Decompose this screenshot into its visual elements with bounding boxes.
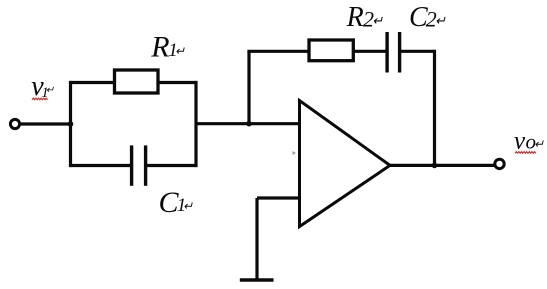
op-amp U1 [300,101,391,227]
svg-text:↵: ↵ [372,13,383,28]
wire C1 right [147,164,196,167]
wire feedback left vertical [247,51,250,123]
svg-text:v: v [514,128,526,155]
ground [240,278,274,281]
wire R2 to C2 [353,50,385,53]
label R2 [346,2,384,33]
label vo [514,128,544,155]
wire right vertical of RC pair [194,81,197,167]
capacitor C2 [387,32,400,73]
svg-text:↵: ↵ [183,199,193,213]
wire input to node [20,122,71,125]
label C1 [159,186,194,219]
wire feedback right vertical [433,50,436,166]
junction input node [68,121,74,127]
wire left vertical of RC pair [69,81,72,167]
svg-text:R: R [346,2,364,33]
label v1 [31,71,55,102]
svg-text:↵: ↵ [534,137,544,151]
wire non-inverting input [257,196,300,199]
label C2 [409,2,446,33]
label R1 [150,31,185,64]
wire to C1 left [71,164,131,167]
spellcheck squiggle vo [515,152,536,154]
wire ground vertical [255,198,258,280]
wire node to op-amp input [196,122,300,125]
svg-text:↵: ↵ [175,44,185,58]
inverting input marker [293,151,297,155]
resistor R2 [309,40,353,61]
output terminal vo [495,159,504,168]
spellcheck squiggle v1 [32,98,48,100]
svg-text:↵: ↵ [46,85,55,96]
junction feedback node [246,121,252,127]
wire output [388,164,495,167]
input terminal v1 [10,119,19,128]
wire to R1 left [71,81,115,84]
resistor R1 [115,70,159,93]
svg-text:↵: ↵ [435,13,446,28]
junction output node [432,163,438,169]
capacitor C1 [132,145,146,185]
wire feedback top to R2 [247,50,309,53]
wire C2 to right vertical [401,50,435,53]
wire R1 right [158,81,196,84]
svg-text:R: R [150,31,169,64]
